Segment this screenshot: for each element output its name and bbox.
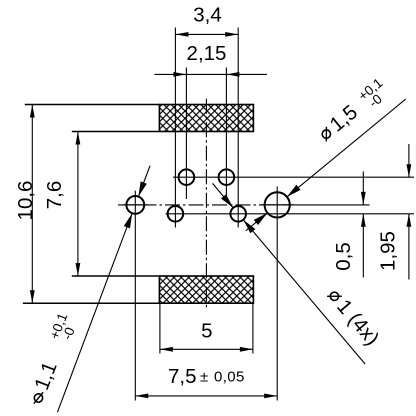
leader and label diam 1,1 +0,1/-0 [22, 166, 150, 413]
svg-text:7,5: 7,5 [168, 365, 197, 388]
body outline top edge extension [25, 104, 160, 106]
svg-text:10,6: 10,6 [14, 181, 37, 221]
crosshair horizontal of left hole [123, 204, 148, 206]
svg-text:0,05: 0,05 [214, 369, 245, 386]
svg-text:3,4: 3,4 [193, 4, 222, 27]
bottom hole row reference line [166, 213, 415, 215]
body outline line at top pad bottom [72, 131, 160, 133]
crosshair vertical of right big hole / 7,5 extension [276, 187, 278, 401]
top copper pad (hatched) [159, 105, 253, 132]
svg-text:5: 5 [201, 319, 212, 342]
svg-text:2,15: 2,15 [187, 42, 227, 65]
dimension 1,95 [377, 144, 412, 280]
body outline bottom edge extension [23, 302, 160, 304]
extension line through left bottom hole (3,4) [174, 28, 176, 228]
dimension 7,6 [43, 132, 80, 277]
hole left diam 1,1 [126, 196, 144, 214]
leader and label diam 1 (4x) [213, 183, 384, 364]
dimension 5 [160, 303, 253, 353]
hole BR diam 1 [230, 206, 246, 222]
extension line through right bottom hole (3,4) [237, 28, 239, 228]
dimension 0,5 [332, 172, 366, 278]
bottom copper pad (hatched) [159, 276, 253, 303]
crosshair vertical of left hole / 7,5 extension [134, 191, 136, 401]
svg-text:7,6: 7,6 [43, 181, 66, 210]
crosshair horizontal of right big hole [261, 204, 294, 206]
dimension 3,4 [175, 4, 238, 37]
svg-text:1,95: 1,95 [377, 231, 400, 271]
extension line through left top hole (2,15) [185, 68, 187, 200]
dimension 7,5 +/- 0,05 [135, 365, 277, 398]
dimension 2,15 [154, 42, 267, 77]
dimension 10,6 [14, 105, 37, 304]
svg-text:0,5: 0,5 [332, 242, 355, 271]
hole BL diam 1 [168, 206, 184, 222]
hole right diam 1,5 [265, 192, 290, 217]
extension line through right top hole (2,15) [225, 68, 227, 200]
centerline extension to 0,5 dimension [290, 204, 369, 206]
vertical centerline [205, 99, 207, 308]
leader and label diam 1,5 +0,1/-0 [246, 75, 406, 230]
svg-text:±: ± [200, 369, 208, 386]
top hole row reference line [173, 176, 414, 178]
hole TL diam 1 [179, 169, 195, 185]
hole TR diam 1 [219, 169, 235, 185]
horizontal centerline [118, 204, 290, 206]
body outline line at bottom pad top [72, 275, 160, 277]
